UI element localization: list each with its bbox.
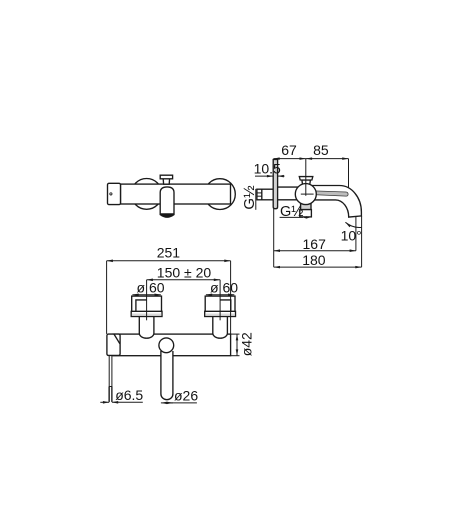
valve centerline vertical: [305, 159, 307, 196]
lever rod lower section emphasised: [109, 387, 112, 402]
escutcheon flange right: [205, 311, 236, 316]
extension o42 bottom: [231, 355, 240, 357]
escutcheon left (front view): [131, 179, 162, 210]
svg-text:ø: ø: [136, 280, 145, 296]
o26 right arrow: [166, 402, 173, 404]
svg-text:251: 251: [157, 245, 181, 261]
spout tube (top view): [161, 350, 173, 400]
dimension 10.5 leader right: [278, 175, 285, 177]
flange right shading: [205, 314, 234, 316]
svg-text:G½: G½: [280, 204, 303, 220]
stub nut line: [261, 189, 263, 200]
flange left shading: [132, 314, 161, 316]
wire pipe bottom edge: [278, 199, 298, 201]
svg-text:150 ± 20: 150 ± 20: [157, 265, 212, 281]
valve centerline tick: [301, 193, 314, 195]
escutcheon cylinder right: [205, 296, 235, 311]
wire pipe top edge: [278, 186, 299, 188]
lever plate (front view): [108, 183, 121, 204]
stub thread mark 2: [257, 195, 262, 197]
dimension 10.5 leader left: [255, 175, 273, 177]
dimension o6.5 underline: [112, 401, 143, 403]
escutcheon notch left: [136, 300, 147, 311]
spout shading band: [313, 191, 348, 196]
svg-text:G½: G½: [241, 185, 258, 210]
G half underline (rotated label): [255, 189, 257, 210]
lever paddle edge: [114, 334, 120, 344]
extension line outlet center: [355, 217, 357, 251]
handle cap (side view): [299, 177, 313, 180]
diverter knob cap (front view): [160, 175, 172, 179]
svg-text:60: 60: [223, 280, 239, 296]
escutcheon flange left: [131, 311, 162, 316]
spout outline: [312, 186, 362, 218]
svg-text:67: 67: [281, 142, 297, 158]
svg-text:60: 60: [149, 280, 165, 296]
lever plate hole: [110, 193, 112, 195]
wall line below plate: [273, 209, 275, 267]
dimension 150 line: [147, 279, 221, 281]
lever rod joint tick: [109, 386, 112, 388]
svg-text:ø6.5: ø6.5: [115, 387, 143, 403]
outlet collar below valve: [301, 204, 311, 210]
valve body circle: [295, 184, 316, 205]
inlet pipe (wall to valve): [278, 187, 300, 200]
escutcheon notch right: [220, 300, 231, 311]
dimension 67 line: [273, 158, 305, 160]
stub thread mark 1: [257, 192, 262, 194]
lever rod left line: [108, 355, 110, 402]
dimension 167 line: [274, 250, 356, 252]
svg-text:10°: 10°: [341, 228, 362, 244]
G half underline (below valve): [280, 216, 303, 218]
escutcheon tube left (top view): [139, 317, 154, 339]
extension o42 top: [231, 333, 240, 335]
extension 251 right: [230, 261, 232, 334]
body (front view): [121, 184, 231, 204]
dimension o6.5 leader left: [100, 401, 109, 403]
outlet box G1/2: [300, 210, 312, 217]
svg-text:10.5: 10.5: [254, 161, 281, 177]
wall plate (side view): [273, 160, 277, 209]
escutcheon cylinder left: [132, 296, 162, 311]
diverter knob stem (front view): [163, 179, 169, 184]
svg-text:180: 180: [302, 252, 326, 268]
centerline escutcheon left: [146, 280, 148, 321]
extension 251 left: [106, 261, 108, 334]
dimension o60 right line: [206, 294, 234, 296]
svg-text:167: 167: [303, 236, 327, 252]
inlet stub G1/2: [257, 189, 273, 200]
body (top view): [113, 334, 231, 356]
spout body fill: [312, 186, 361, 218]
centerline escutcheon right: [219, 280, 221, 321]
svg-text:85: 85: [313, 142, 329, 158]
svg-text:ø42: ø42: [239, 332, 255, 356]
spout (front view): [160, 187, 174, 217]
escutcheon right (front view): [205, 179, 236, 210]
lever rod right line: [111, 355, 113, 402]
dimension 85 line: [306, 158, 349, 160]
svg-text:ø26: ø26: [174, 388, 198, 404]
spout outlet dark tip (front view): [161, 213, 174, 217]
small arrow pair under outlet box: [303, 216, 307, 218]
angle 10 deg arc: [345, 222, 361, 227]
handle stem (side view): [302, 180, 311, 186]
escutcheon tube right (top view): [213, 317, 228, 339]
extension line spout outer edge: [361, 216, 363, 267]
lever plate (top view): [107, 334, 120, 355]
dimension o42 line: [236, 334, 238, 356]
dimension 180 line: [274, 266, 362, 268]
diverter knob (top view): [159, 338, 174, 353]
dimension o26 underline: [161, 402, 197, 404]
dimension o60 left line: [132, 294, 160, 296]
dimension 251 line: [107, 260, 231, 262]
extension line right of 85: [348, 159, 350, 188]
svg-text:ø: ø: [210, 280, 219, 296]
